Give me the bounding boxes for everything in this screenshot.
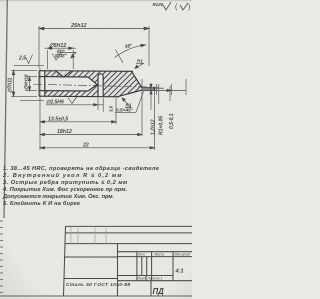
bore top line [39, 76, 88, 78]
lit small cells [141, 257, 143, 276]
counterbore step face [44, 71, 46, 97]
svg-text:1,2h12: 1,2h12 [150, 119, 156, 135]
roughness 2.5 check left [14, 64, 44, 66]
svg-text:Масштаб: Масштаб [175, 252, 191, 256]
svg-text:2,5: 2,5 [18, 56, 26, 62]
small rotated dim 3.6 [115, 98, 117, 124]
dim d2.5H9 radial hole [97, 98, 99, 110]
sheet frame bottom border line [0, 295, 192, 297]
svg-text:1. 38...45 HRC, проверять на о: 1. 38...45 HRC, проверять на образце -св… [3, 165, 159, 172]
svg-text:0,5-0,1: 0,5-0,1 [169, 113, 175, 129]
svg-text:∅7h11: ∅7h11 [8, 77, 14, 93]
svg-text:R1: R1 [137, 59, 143, 64]
body outline [39, 71, 155, 97]
paper background [0, 0, 192, 299]
roughness Rz40 check on countersink [52, 53, 61, 61]
outer top line [39, 70, 133, 73]
svg-text:3,6: 3,6 [109, 105, 114, 112]
dim 18h12 [141, 79, 143, 136]
bottom taper edge [117, 90, 142, 97]
svg-text:4. Покрытие Хим. Фос ускоренно: 4. Покрытие Хим. Фос ускоренное пр прм. [2, 187, 128, 193]
left end face [38, 71, 40, 97]
list row [118, 275, 174, 277]
bore bottom line [39, 90, 88, 92]
bore drill cone [88, 77, 97, 91]
dim 0.5-0.1 vertical [169, 86, 171, 101]
bottom-left extension line [20, 100, 44, 102]
svg-text:R1+0,05: R1+0,05 [158, 116, 164, 135]
countersink cone left edge [56, 71, 64, 77]
countersink cone cavity [56, 71, 71, 77]
svg-text:∅4H12: ∅4H12 [24, 74, 30, 90]
sheet frame left border line [4, 0, 7, 218]
dim R1+0.05 vertical [158, 84, 160, 104]
svg-text:): ) [188, 4, 190, 11]
svg-text:ПД: ПД [153, 287, 165, 296]
dim d4H12 left bore [25, 76, 37, 78]
svg-text:∅5H12: ∅5H12 [49, 43, 66, 49]
svg-text:5. Клеймить К И на бирке: 5. Клеймить К И на бирке [3, 200, 80, 207]
svg-text:Лит.: Лит. [137, 252, 146, 256]
stamp horizontal lines [66, 225, 193, 227]
svg-text:18h12: 18h12 [57, 129, 72, 135]
stub dim lines right [156, 84, 158, 95]
svg-text:Rz20: Rz20 [153, 2, 164, 7]
svg-text:Лист: Лист [137, 277, 147, 281]
angle dim 30deg [115, 45, 146, 58]
stamp outer left edge [64, 226, 66, 296]
svg-text:Листов 1: Листов 1 [147, 277, 163, 281]
svg-text:Масса: Масса [155, 252, 165, 256]
countersink cone right edge [64, 71, 72, 77]
sheet frame left margin dashes bottom [0, 221, 3, 293]
right block: lit massa masshtab [118, 251, 193, 253]
section body hatched area [45, 71, 142, 97]
dim d7h11 left outer [11, 69, 37, 71]
dim 1.2h12 vertical [150, 84, 152, 111]
centerline [33, 84, 159, 87]
30deg chamfer edge [132, 71, 143, 88]
dim 25h12 top [38, 26, 40, 68]
svg-text:3. Острые ребра притупить ≤ 0,: 3. Острые ребра притупить ≤ 0,2 мм [3, 179, 128, 186]
top-right roughness group: Rz20 over check, and (check) [153, 2, 191, 11]
dim 22 [39, 68, 41, 150]
roughness check under bottom surface [68, 97, 77, 104]
svg-text:4:1: 4:1 [175, 269, 184, 275]
svg-text:Rz40: Rz40 [55, 54, 65, 59]
svg-text:25h12: 25h12 [70, 23, 87, 29]
outer bottom line [39, 95, 119, 98]
stub cylinder [142, 88, 155, 90]
radial hole walls [98, 74, 103, 97]
svg-text:13,5±0,5: 13,5±0,5 [48, 117, 68, 123]
svg-text:22: 22 [82, 142, 89, 148]
svg-text:Сталь 50 ГОСТ 1050-88: Сталь 50 ГОСТ 1050-88 [66, 282, 131, 288]
faint signature column lines [71, 226, 106, 243]
dim 13.5+-0.5 [40, 121, 116, 123]
stamp vertical mid line [117, 244, 119, 296]
svg-text:2. Внутренний угол R ≤ 0,2 мм: 2. Внутренний угол R ≤ 0,2 мм [2, 172, 123, 179]
svg-text:∅2,5H9: ∅2,5H9 [46, 100, 64, 106]
svg-text:Допускается покрытие Хим. Окс.: Допускается покрытие Хим. Окс. прм. [2, 194, 115, 200]
dim d5H12 [46, 50, 48, 69]
